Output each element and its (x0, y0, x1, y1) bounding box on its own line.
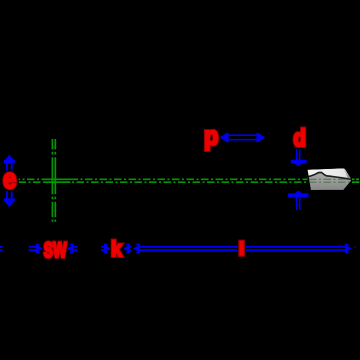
svg-text:p: p (204, 120, 218, 150)
broken shaft symbol: outer outline (307, 168, 353, 191)
dimension l: right arrow (points right) (345, 245, 352, 253)
broken shaft symbol: jagged break line (307, 172, 352, 179)
dimension sw: right arrow (points left) + shaft (67, 245, 78, 253)
dimension k: left shaft + arrow (points right) (101, 245, 111, 253)
horizontal centerline solid dash at cross (44, 178, 71, 180)
dimension e: bottom arrow (down) (4, 198, 15, 207)
dimension d: upper shaft right stroke (299, 148, 301, 160)
dimension l: line lower stroke (139, 249, 346, 251)
dimension d: upper arrow (down) (291, 160, 307, 166)
label l (237, 239, 246, 258)
dimension e: vertical line left stroke (6, 158, 8, 204)
dimension d: lower arrow (up) (288, 191, 309, 198)
broken shaft symbol: fold curl (344, 168, 353, 180)
bottom dimension line: left edge stub (0, 247, 3, 250)
dimension l: line upper stroke (139, 246, 346, 248)
svg-text:e: e (3, 163, 16, 194)
dimension p: left arrow (220, 133, 228, 142)
horizontal centerline (upper stroke) (19, 178, 360, 180)
svg-text:d: d (293, 125, 306, 152)
dimension k: right arrow (points left) + shaft (123, 245, 131, 253)
broken shaft symbol: outline backing (307, 168, 353, 191)
dimension sw: left shaft + arrow (points right) (29, 245, 43, 253)
horizontal centerline (lower stroke) (19, 181, 360, 183)
dimension d: upper shaft left stroke (296, 148, 298, 160)
arrowhead serif marks (bottom band) (36, 244, 356, 253)
svg-text:k: k (111, 237, 122, 261)
vertical centerline (right stroke) (54, 139, 56, 222)
dimension e: vertical line right stroke (11, 158, 13, 204)
dimension p: line upper stroke (226, 134, 259, 136)
centerline over object (darker) (309, 178, 351, 180)
centerline dots over break tip (352, 178, 360, 180)
dimension d: lower shaft left stroke (296, 197, 298, 210)
dimension d: lower shaft right stroke (299, 197, 301, 210)
broken shaft symbol: front face (307, 172, 352, 190)
svg-text:sw: sw (44, 232, 67, 263)
vertical centerline (left stroke) (51, 139, 53, 222)
dimension e: top arrow (up) (4, 154, 15, 163)
dimension l: left arrow (points left) (133, 245, 140, 253)
broken shaft symbol: top face (307, 168, 348, 179)
dimension p: right arrow (258, 133, 266, 142)
dimension p: line lower stroke (226, 139, 259, 141)
